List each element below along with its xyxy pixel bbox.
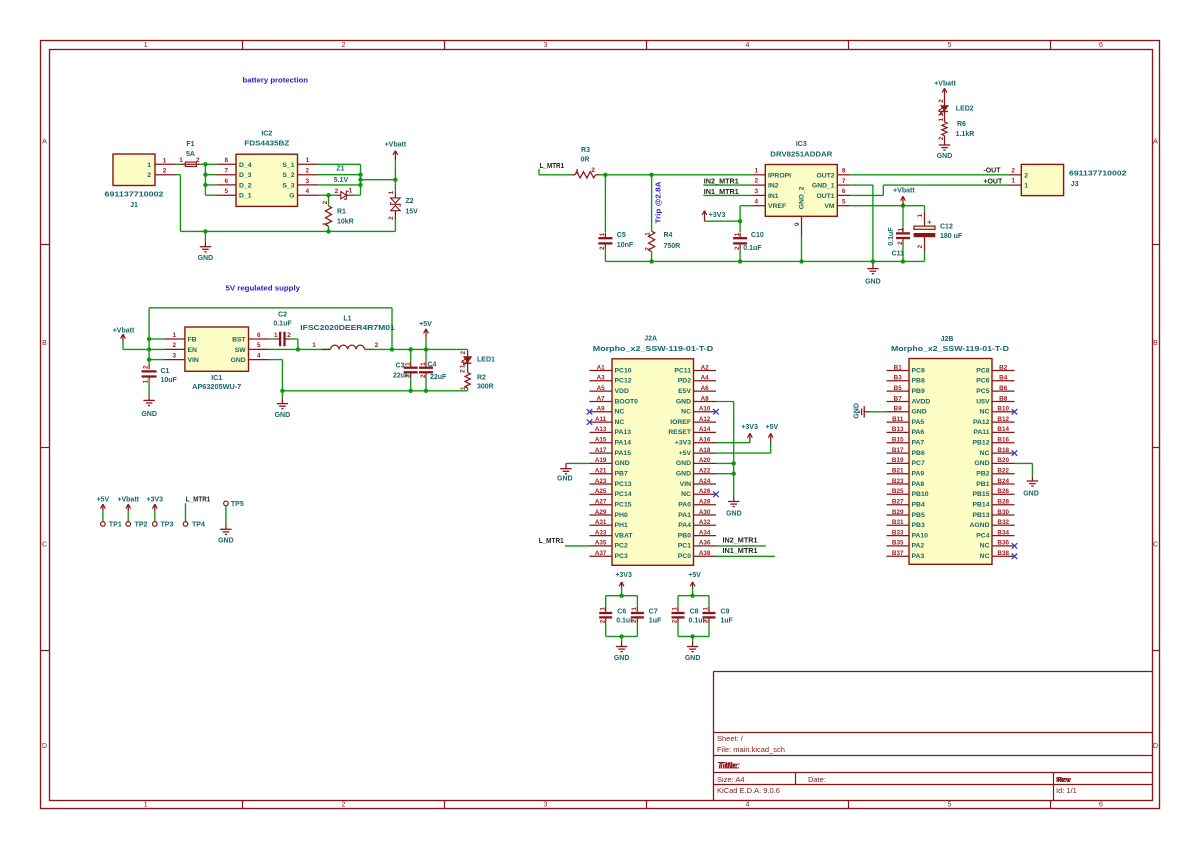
- svg-text:AGND: AGND: [969, 522, 989, 529]
- svg-text:NC: NC: [615, 409, 625, 416]
- svg-text:PC11: PC11: [674, 367, 691, 374]
- svg-text:R1: R1: [337, 209, 346, 216]
- svg-text:8: 8: [225, 157, 229, 164]
- svg-text:3: 3: [755, 188, 759, 195]
- svg-text:PA5: PA5: [912, 419, 925, 426]
- svg-text:GND: GND: [557, 475, 573, 482]
- svg-text:Z1: Z1: [336, 166, 344, 173]
- svg-text:Rev: Rev: [1057, 775, 1072, 784]
- svg-text:B31: B31: [892, 519, 904, 526]
- svg-text:B2: B2: [999, 364, 1008, 371]
- svg-text:A9: A9: [597, 406, 606, 413]
- svg-text:B: B: [42, 340, 47, 347]
- svg-text:15V: 15V: [405, 208, 418, 215]
- svg-text:VDD: VDD: [615, 388, 629, 395]
- svg-text:2: 2: [460, 369, 467, 373]
- svg-text:C11: C11: [892, 251, 905, 258]
- svg-text:J2B: J2B: [941, 336, 954, 343]
- svg-text:A18: A18: [699, 447, 711, 454]
- svg-text:J1: J1: [130, 202, 138, 209]
- svg-text:PC0: PC0: [678, 553, 691, 560]
- svg-text:A26: A26: [699, 488, 711, 495]
- svg-text:A28: A28: [699, 498, 711, 505]
- svg-text:IOREF: IOREF: [670, 419, 691, 426]
- svg-text:A20: A20: [699, 457, 711, 464]
- svg-text:GND: GND: [685, 655, 701, 662]
- svg-text:VIN: VIN: [680, 481, 691, 488]
- svg-text:Title:: Title:: [719, 761, 740, 771]
- svg-text:TP1: TP1: [109, 521, 122, 528]
- svg-text:PB2: PB2: [976, 470, 989, 477]
- svg-text:2: 2: [420, 374, 427, 378]
- svg-text:PC4: PC4: [976, 532, 989, 539]
- svg-text:1: 1: [312, 342, 316, 349]
- svg-text:1: 1: [576, 168, 580, 175]
- svg-text:Morpho_x2_SSW-119-01-T-D: Morpho_x2_SSW-119-01-T-D: [593, 346, 714, 353]
- svg-text:+5V: +5V: [766, 424, 779, 431]
- svg-text:B18: B18: [997, 447, 1009, 454]
- svg-text:D_4: D_4: [239, 162, 252, 169]
- svg-text:PC1: PC1: [678, 543, 691, 550]
- svg-text:A16: A16: [699, 436, 711, 443]
- svg-text:PA13: PA13: [615, 429, 632, 436]
- svg-text:A34: A34: [699, 529, 711, 536]
- svg-text:R2: R2: [477, 374, 486, 381]
- svg-text:B3: B3: [894, 375, 903, 382]
- svg-text:7: 7: [225, 168, 229, 175]
- svg-text:B13: B13: [892, 426, 904, 433]
- svg-text:+3V3: +3V3: [615, 572, 632, 579]
- svg-text:0R: 0R: [581, 156, 590, 163]
- svg-text:PA1: PA1: [678, 512, 691, 519]
- svg-text:C9: C9: [720, 608, 729, 615]
- svg-text:A37: A37: [595, 550, 607, 557]
- svg-text:GND: GND: [141, 411, 157, 418]
- svg-text:1: 1: [349, 188, 353, 195]
- svg-text:IC1: IC1: [211, 375, 222, 382]
- svg-text:1: 1: [142, 379, 149, 383]
- svg-text:B10: B10: [997, 406, 1009, 413]
- svg-text:Morpho_x2_SSW-119-01-T-D: Morpho_x2_SSW-119-01-T-D: [891, 346, 1009, 353]
- svg-text:1: 1: [147, 162, 151, 169]
- svg-text:C4: C4: [428, 361, 437, 368]
- svg-text:B22: B22: [997, 467, 1009, 474]
- svg-text:R4: R4: [664, 232, 673, 239]
- svg-text:PC6: PC6: [976, 378, 989, 385]
- svg-text:+3V3: +3V3: [675, 439, 691, 446]
- svg-text:IN2: IN2: [768, 183, 779, 190]
- svg-text:7: 7: [842, 178, 846, 185]
- svg-text:NC: NC: [681, 491, 691, 498]
- svg-text:GND_2: GND_2: [798, 186, 805, 209]
- svg-text:B15: B15: [892, 436, 904, 443]
- svg-text:0.1uF: 0.1uF: [273, 321, 292, 328]
- svg-text:PC15: PC15: [615, 501, 632, 508]
- svg-text:A38: A38: [699, 550, 711, 557]
- svg-text:1: 1: [1024, 183, 1028, 190]
- svg-text:4: 4: [306, 188, 310, 195]
- svg-text:C5: C5: [617, 232, 626, 239]
- svg-text:D_1: D_1: [239, 193, 252, 200]
- svg-text:VREF: VREF: [768, 203, 786, 210]
- svg-text:GND: GND: [198, 255, 214, 262]
- svg-text:2: 2: [645, 247, 652, 251]
- svg-text:C1: C1: [161, 368, 170, 375]
- svg-text:PC9: PC9: [912, 367, 925, 374]
- svg-text:A19: A19: [595, 457, 607, 464]
- svg-text:GND: GND: [615, 460, 630, 467]
- svg-text:PA10: PA10: [912, 532, 929, 539]
- svg-text:2: 2: [196, 157, 200, 164]
- svg-text:PA4: PA4: [678, 522, 691, 529]
- svg-text:SW: SW: [235, 347, 247, 354]
- svg-text:6: 6: [1099, 801, 1103, 808]
- svg-text:PB9: PB9: [912, 388, 925, 395]
- svg-text:B9: B9: [894, 406, 903, 413]
- svg-text:2: 2: [917, 244, 924, 248]
- svg-text:4: 4: [746, 42, 750, 49]
- svg-text:PB7: PB7: [615, 470, 628, 477]
- svg-text:battery protection: battery protection: [243, 76, 309, 85]
- svg-text:1: 1: [144, 801, 148, 808]
- svg-text:C3: C3: [396, 363, 405, 370]
- svg-text:U5V: U5V: [976, 398, 990, 405]
- svg-text:+5V: +5V: [679, 450, 692, 457]
- svg-text:A25: A25: [595, 488, 607, 495]
- svg-text:G: G: [289, 193, 294, 200]
- svg-text:A17: A17: [595, 447, 607, 454]
- svg-text:PB3: PB3: [912, 522, 925, 529]
- svg-text:B33: B33: [892, 529, 904, 536]
- svg-text:10uF: 10uF: [161, 377, 178, 384]
- svg-text:A: A: [42, 139, 47, 146]
- svg-text:1uF: 1uF: [649, 618, 662, 625]
- svg-text:RESET: RESET: [668, 429, 692, 436]
- svg-text:S_2: S_2: [282, 172, 294, 179]
- svg-text:PD2: PD2: [678, 378, 691, 385]
- svg-text:+Vbatt: +Vbatt: [117, 496, 139, 503]
- svg-text:2: 2: [672, 619, 679, 623]
- svg-text:2: 2: [335, 188, 339, 195]
- svg-text:PA3: PA3: [912, 553, 925, 560]
- svg-text:GND: GND: [726, 510, 742, 517]
- svg-text:OUT1: OUT1: [816, 193, 834, 200]
- svg-text:+5V: +5V: [688, 572, 701, 579]
- svg-text:Date:: Date:: [808, 775, 826, 784]
- svg-text:B11: B11: [892, 416, 904, 423]
- svg-text:9: 9: [794, 222, 801, 226]
- svg-text:B24: B24: [997, 478, 1009, 485]
- svg-text:2: 2: [599, 246, 606, 250]
- svg-text:4: 4: [755, 198, 759, 205]
- svg-text:NC: NC: [980, 553, 990, 560]
- svg-text:A1: A1: [597, 364, 606, 371]
- svg-text:B1: B1: [894, 364, 903, 371]
- svg-text:A6: A6: [701, 385, 710, 392]
- svg-text:C8: C8: [690, 608, 699, 615]
- svg-text:2: 2: [388, 216, 395, 220]
- svg-text:691137710002: 691137710002: [1069, 171, 1127, 178]
- svg-text:PA6: PA6: [912, 429, 925, 436]
- svg-text:1: 1: [420, 362, 427, 366]
- svg-text:1: 1: [755, 167, 759, 174]
- svg-text:PB1: PB1: [976, 481, 989, 488]
- svg-text:6: 6: [257, 332, 261, 339]
- svg-text:8: 8: [842, 168, 846, 175]
- svg-text:L_MTR1: L_MTR1: [540, 163, 565, 170]
- svg-text:B4: B4: [999, 375, 1008, 382]
- svg-text:L1: L1: [343, 316, 351, 323]
- svg-text:PC10: PC10: [615, 367, 632, 374]
- svg-text:2: 2: [631, 619, 638, 623]
- svg-text:R6: R6: [957, 121, 966, 128]
- svg-text:FDS4435BZ: FDS4435BZ: [244, 140, 290, 147]
- svg-text:B19: B19: [892, 457, 904, 464]
- svg-text:4: 4: [257, 352, 261, 359]
- svg-text:A8: A8: [701, 395, 710, 402]
- svg-text:1: 1: [322, 222, 329, 226]
- svg-text:A4: A4: [701, 375, 710, 382]
- svg-text:GND: GND: [854, 403, 861, 419]
- svg-text:1: 1: [274, 332, 278, 339]
- svg-text:PB0: PB0: [678, 532, 691, 539]
- svg-text:IFSC2020DEER4R7M01: IFSC2020DEER4R7M01: [300, 325, 395, 332]
- svg-text:1: 1: [897, 227, 904, 231]
- svg-text:PA8: PA8: [912, 481, 925, 488]
- svg-text:PB5: PB5: [912, 512, 925, 519]
- svg-text:A24: A24: [699, 478, 711, 485]
- svg-text:LED1: LED1: [477, 356, 495, 363]
- svg-text:2: 2: [897, 241, 904, 245]
- svg-text:NC: NC: [615, 419, 625, 426]
- svg-text:PA7: PA7: [912, 439, 925, 446]
- svg-text:B26: B26: [997, 488, 1009, 495]
- svg-text:B30: B30: [997, 509, 1009, 516]
- svg-text:B8: B8: [999, 395, 1008, 402]
- svg-text:NC: NC: [681, 409, 691, 416]
- svg-text:B6: B6: [999, 385, 1008, 392]
- svg-text:3: 3: [173, 352, 177, 359]
- svg-text:+3V3: +3V3: [709, 212, 726, 219]
- svg-text:6: 6: [842, 188, 846, 195]
- svg-text:1: 1: [306, 157, 310, 164]
- svg-text:A29: A29: [595, 509, 607, 516]
- svg-text:B21: B21: [892, 467, 904, 474]
- svg-text:691137710002: 691137710002: [105, 191, 164, 198]
- svg-text:3: 3: [544, 801, 548, 808]
- svg-text:+Vbatt: +Vbatt: [934, 80, 956, 87]
- svg-text:180 uF: 180 uF: [940, 233, 963, 240]
- svg-text:A12: A12: [699, 416, 711, 423]
- svg-text:2: 2: [1011, 167, 1015, 174]
- svg-text:A2: A2: [701, 364, 710, 371]
- svg-text:TP3: TP3: [161, 521, 174, 528]
- svg-text:PB15: PB15: [972, 491, 989, 498]
- svg-text:2: 2: [703, 619, 710, 623]
- svg-text:+3V3: +3V3: [147, 496, 164, 503]
- svg-text:B36: B36: [997, 540, 1009, 547]
- svg-text:File: main.kicad_sch: File: main.kicad_sch: [717, 745, 785, 754]
- svg-text:B12: B12: [997, 416, 1009, 423]
- svg-text:1: 1: [599, 607, 606, 611]
- svg-text:KiCad E.D.A. 9.0.6: KiCad E.D.A. 9.0.6: [717, 786, 780, 795]
- svg-text:S_1: S_1: [282, 162, 294, 169]
- svg-text:B37: B37: [892, 550, 904, 557]
- svg-text:GND: GND: [676, 398, 691, 405]
- svg-text:B: B: [1153, 340, 1158, 347]
- svg-text:NC: NC: [980, 543, 990, 550]
- svg-text:2: 2: [142, 365, 149, 369]
- svg-text:EN: EN: [188, 347, 198, 354]
- svg-text:D_2: D_2: [239, 182, 252, 189]
- svg-text:LED2: LED2: [956, 106, 974, 113]
- svg-text:+5V: +5V: [419, 321, 432, 328]
- svg-text:C12: C12: [940, 224, 953, 231]
- svg-text:B7: B7: [894, 395, 903, 402]
- svg-text:1: 1: [144, 42, 148, 49]
- svg-text:IC2: IC2: [261, 131, 272, 138]
- svg-text:PB13: PB13: [972, 512, 989, 519]
- svg-text:IC3: IC3: [796, 141, 807, 148]
- svg-text:L_MTR1: L_MTR1: [186, 496, 211, 503]
- svg-text:A10: A10: [699, 406, 711, 413]
- svg-text:GND: GND: [937, 153, 953, 160]
- svg-text:F1: F1: [186, 141, 194, 148]
- svg-text:Size: A4: Size: A4: [717, 775, 745, 784]
- svg-text:D: D: [42, 743, 47, 750]
- svg-text:VBAT: VBAT: [615, 532, 634, 539]
- svg-text:C10: C10: [751, 232, 764, 239]
- svg-text:A22: A22: [699, 467, 711, 474]
- svg-text:PB14: PB14: [972, 501, 989, 508]
- svg-text:PB12: PB12: [972, 439, 989, 446]
- svg-text:A3: A3: [597, 375, 606, 382]
- svg-text:GND: GND: [275, 412, 291, 419]
- svg-text:1: 1: [405, 362, 412, 366]
- svg-text:AP63205WU-7: AP63205WU-7: [192, 384, 241, 391]
- svg-text:R3: R3: [581, 147, 590, 154]
- svg-text:VM: VM: [824, 203, 835, 210]
- svg-text:2: 2: [1024, 172, 1028, 179]
- svg-text:B20: B20: [997, 457, 1009, 464]
- svg-text:A14: A14: [699, 426, 711, 433]
- svg-text:B28: B28: [997, 498, 1009, 505]
- svg-text:PH1: PH1: [615, 522, 628, 529]
- svg-text:J2A: J2A: [644, 336, 657, 343]
- svg-text:22uF: 22uF: [430, 374, 447, 381]
- svg-text:PA11: PA11: [973, 429, 989, 436]
- svg-text:PC14: PC14: [615, 491, 632, 498]
- svg-text:GND: GND: [912, 409, 927, 416]
- svg-text:Sheet: /: Sheet: /: [717, 734, 744, 743]
- svg-text:+5V: +5V: [97, 496, 110, 503]
- svg-text:PC7: PC7: [912, 460, 925, 467]
- svg-text:PB4: PB4: [912, 501, 925, 508]
- svg-text:PB10: PB10: [912, 491, 929, 498]
- svg-text:TP4: TP4: [192, 521, 205, 528]
- svg-text:1: 1: [388, 190, 395, 194]
- svg-text:300R: 300R: [477, 383, 494, 390]
- svg-text:0.1uF: 0.1uF: [743, 245, 762, 252]
- svg-text:IN2_MTR1: IN2_MTR1: [723, 538, 758, 545]
- svg-text:A36: A36: [699, 540, 711, 547]
- svg-text:2: 2: [460, 350, 467, 354]
- svg-text:2: 2: [599, 619, 606, 623]
- svg-text:1: 1: [734, 232, 741, 236]
- svg-text:10nF: 10nF: [617, 242, 634, 249]
- svg-text:1: 1: [163, 157, 167, 164]
- svg-text:5: 5: [948, 801, 952, 808]
- svg-text:AVDD: AVDD: [912, 398, 931, 405]
- svg-text:2: 2: [405, 374, 412, 378]
- svg-text:PH0: PH0: [615, 512, 628, 519]
- svg-text:1: 1: [173, 332, 177, 339]
- svg-text:GND: GND: [218, 538, 234, 545]
- svg-text:+: +: [927, 218, 932, 227]
- svg-text:IPROPI: IPROPI: [768, 172, 791, 179]
- svg-text:PC5: PC5: [976, 388, 989, 395]
- svg-text:5: 5: [948, 42, 952, 49]
- svg-text:DRV8251ADDAR: DRV8251ADDAR: [770, 152, 832, 159]
- svg-text:OUT2: OUT2: [816, 172, 834, 179]
- svg-text:A21: A21: [595, 467, 607, 474]
- svg-text:2: 2: [375, 342, 379, 349]
- svg-text:B5: B5: [894, 385, 903, 392]
- svg-text:+Vbatt: +Vbatt: [113, 327, 135, 334]
- svg-text:A23: A23: [595, 478, 607, 485]
- svg-text:GND: GND: [974, 460, 989, 467]
- svg-text:1: 1: [460, 364, 467, 368]
- svg-text:5.1V: 5.1V: [334, 177, 349, 184]
- svg-text:1: 1: [672, 607, 679, 611]
- svg-text:TP5: TP5: [231, 501, 244, 508]
- svg-text:GND: GND: [676, 460, 691, 467]
- svg-text:2: 2: [147, 172, 151, 179]
- svg-text:PA9: PA9: [912, 470, 925, 477]
- svg-text:C6: C6: [617, 608, 626, 615]
- svg-text:PC2: PC2: [615, 543, 628, 550]
- svg-text:1: 1: [703, 607, 710, 611]
- svg-text:2: 2: [173, 342, 177, 349]
- svg-text:TP2: TP2: [135, 521, 148, 528]
- svg-text:A13: A13: [595, 426, 607, 433]
- svg-text:PA14: PA14: [615, 439, 632, 446]
- svg-text:PA0: PA0: [678, 501, 691, 508]
- svg-text:1.1kR: 1.1kR: [956, 131, 975, 138]
- svg-text:B17: B17: [892, 447, 904, 454]
- svg-text:B16: B16: [997, 436, 1009, 443]
- svg-text:PC12: PC12: [615, 378, 632, 385]
- svg-text:10kR: 10kR: [337, 219, 354, 226]
- svg-text:E5V: E5V: [678, 388, 691, 395]
- svg-text:Z2: Z2: [405, 198, 413, 205]
- svg-text:B34: B34: [997, 529, 1009, 536]
- svg-text:BST: BST: [232, 336, 246, 343]
- svg-text:1: 1: [179, 157, 183, 164]
- svg-text:2: 2: [163, 168, 167, 175]
- svg-text:B29: B29: [892, 509, 904, 516]
- svg-text:2: 2: [591, 167, 595, 174]
- svg-text:GND_1: GND_1: [812, 183, 835, 190]
- svg-text:6: 6: [1099, 42, 1103, 49]
- svg-text:2: 2: [938, 136, 945, 140]
- svg-text:A30: A30: [699, 509, 711, 516]
- svg-text:Trip @2.8A: Trip @2.8A: [656, 182, 663, 224]
- svg-text:B23: B23: [892, 478, 904, 485]
- svg-text:1: 1: [938, 117, 945, 121]
- svg-text:PC8: PC8: [976, 367, 989, 374]
- svg-text:C7: C7: [649, 608, 658, 615]
